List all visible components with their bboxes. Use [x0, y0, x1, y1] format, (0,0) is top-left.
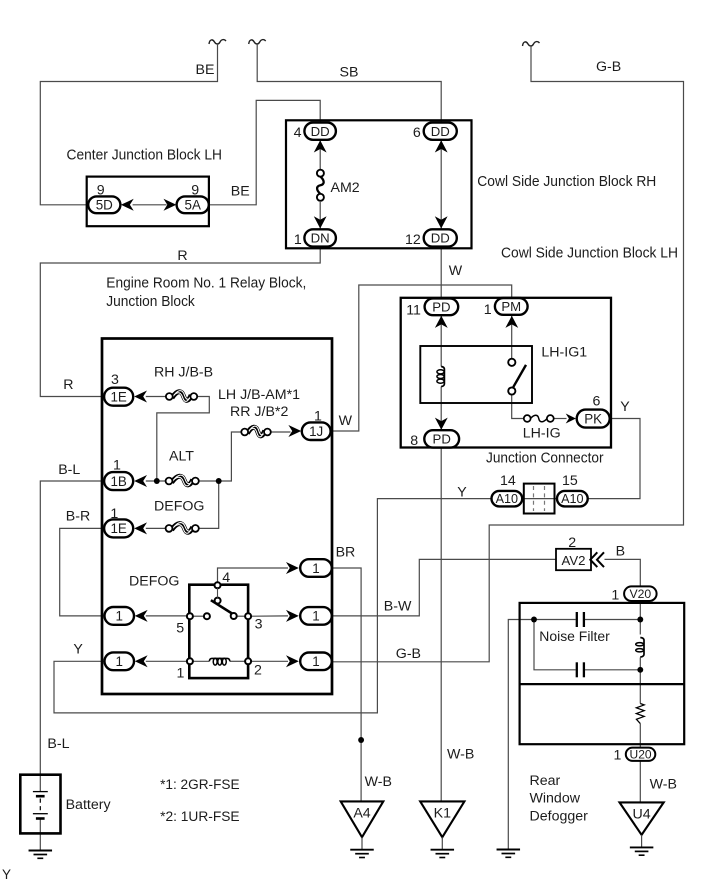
svg-text:A10: A10 [496, 492, 518, 506]
svg-text:LH J/B-AM*1: LH J/B-AM*1 [218, 387, 300, 403]
svg-text:PK: PK [584, 411, 602, 426]
svg-text:Center Junction Block LH: Center Junction Block LH [67, 147, 223, 163]
svg-text:8: 8 [410, 433, 418, 449]
svg-text:K1: K1 [434, 805, 451, 821]
svg-text:1: 1 [484, 302, 492, 318]
svg-text:G-B: G-B [596, 59, 621, 75]
svg-text:RR J/B*2: RR J/B*2 [230, 404, 288, 420]
svg-text:DD: DD [311, 124, 330, 139]
svg-text:DEFOG: DEFOG [154, 498, 204, 514]
svg-text:1: 1 [312, 609, 319, 624]
svg-text:2: 2 [254, 663, 262, 679]
svg-text:AM2: AM2 [331, 180, 360, 196]
svg-text:W-B: W-B [447, 746, 474, 762]
svg-text:15: 15 [562, 473, 578, 489]
svg-text:4: 4 [222, 570, 230, 586]
svg-text:Y: Y [2, 867, 11, 881]
svg-text:B-L: B-L [47, 736, 69, 752]
svg-text:6: 6 [413, 125, 421, 141]
svg-text:14: 14 [500, 473, 516, 489]
svg-text:3: 3 [111, 372, 119, 388]
svg-text:U20: U20 [630, 748, 652, 762]
svg-text:DN: DN [311, 231, 330, 246]
svg-text:R: R [63, 377, 73, 393]
svg-text:*1: 2GR-FSE: *1: 2GR-FSE [160, 777, 240, 793]
svg-text:B: B [616, 543, 625, 559]
svg-text:1: 1 [116, 654, 123, 669]
svg-text:5: 5 [176, 620, 184, 636]
svg-text:1: 1 [110, 506, 118, 522]
svg-text:W-B: W-B [650, 776, 677, 792]
svg-text:6: 6 [593, 394, 601, 410]
svg-text:Cowl Side Junction Block LH: Cowl Side Junction Block LH [501, 246, 678, 262]
svg-text:Engine Room No. 1 Relay Block,: Engine Room No. 1 Relay Block, [106, 276, 306, 292]
svg-text:Defogger: Defogger [530, 808, 589, 824]
svg-text:G-B: G-B [396, 646, 421, 662]
svg-text:W: W [339, 413, 353, 429]
svg-text:5D: 5D [96, 198, 113, 213]
svg-text:AV2: AV2 [562, 553, 586, 568]
svg-text:ALT: ALT [169, 448, 194, 464]
svg-text:9: 9 [97, 182, 105, 198]
svg-text:DEFOG: DEFOG [129, 573, 179, 589]
svg-text:1: 1 [314, 408, 322, 424]
svg-text:1J: 1J [309, 424, 323, 439]
svg-text:A4: A4 [353, 805, 370, 821]
svg-text:A10: A10 [561, 492, 583, 506]
svg-text:LH-IG: LH-IG [523, 426, 561, 442]
svg-text:PD: PD [433, 432, 451, 447]
svg-text:DD: DD [431, 231, 450, 246]
svg-text:1E: 1E [110, 521, 126, 536]
svg-text:PD: PD [432, 299, 450, 314]
svg-text:BE: BE [196, 62, 215, 78]
svg-text:Y: Y [457, 484, 467, 500]
svg-text:5A: 5A [185, 198, 201, 213]
svg-text:R: R [177, 248, 187, 264]
svg-text:BE: BE [231, 183, 250, 199]
svg-text:BR: BR [336, 544, 356, 560]
svg-text:W: W [449, 263, 463, 279]
svg-text:4: 4 [294, 125, 302, 141]
svg-text:1: 1 [116, 609, 123, 624]
svg-text:Y: Y [620, 399, 630, 415]
svg-text:1: 1 [312, 561, 319, 576]
svg-text:Battery: Battery [66, 797, 112, 813]
svg-text:Junction Connector: Junction Connector [486, 451, 604, 467]
svg-text:PM: PM [501, 299, 521, 314]
svg-text:1: 1 [294, 232, 302, 248]
svg-text:U4: U4 [633, 806, 651, 822]
svg-text:12: 12 [405, 232, 421, 248]
svg-text:B-W: B-W [384, 598, 412, 614]
svg-text:RH J/B-B: RH J/B-B [154, 364, 213, 380]
svg-text:1: 1 [177, 665, 185, 681]
svg-text:1E: 1E [110, 389, 126, 404]
svg-text:3: 3 [255, 616, 263, 632]
svg-text:SB: SB [340, 65, 359, 81]
svg-text:1: 1 [113, 457, 121, 473]
svg-text:Window: Window [530, 791, 581, 807]
svg-text:1: 1 [312, 654, 319, 669]
svg-text:Rear: Rear [530, 773, 561, 789]
svg-text:DD: DD [431, 124, 450, 139]
svg-text:Junction Block: Junction Block [106, 294, 195, 310]
svg-text:W-B: W-B [365, 774, 392, 790]
svg-text:Cowl Side Junction Block RH: Cowl Side Junction Block RH [477, 174, 656, 190]
svg-text:1: 1 [614, 747, 622, 763]
svg-text:B-R: B-R [66, 508, 90, 524]
svg-text:Noise Filter: Noise Filter [539, 629, 610, 645]
svg-text:*2: 1UR-FSE: *2: 1UR-FSE [160, 809, 240, 825]
svg-text:Y: Y [73, 642, 83, 658]
svg-text:B-L: B-L [58, 462, 80, 478]
svg-text:2: 2 [568, 535, 576, 551]
svg-text:1: 1 [611, 587, 619, 603]
svg-text:1B: 1B [110, 474, 126, 489]
svg-text:9: 9 [191, 182, 199, 198]
svg-text:V20: V20 [630, 587, 652, 601]
svg-text:11: 11 [406, 302, 421, 318]
svg-text:LH-IG1: LH-IG1 [541, 344, 587, 360]
